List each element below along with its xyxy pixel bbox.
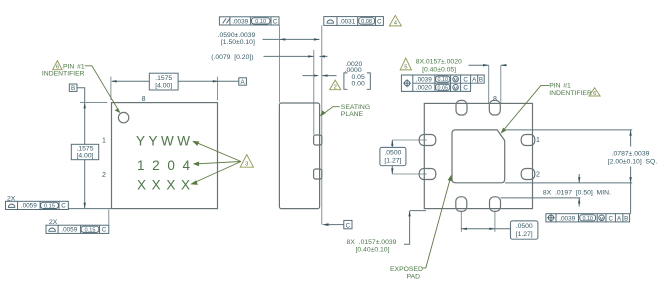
svg-text:6: 6	[593, 91, 596, 97]
svg-text:C: C	[346, 222, 351, 229]
svg-text:[2.00±0.10] SQ.: [2.00±0.10] SQ.	[608, 159, 658, 166]
svg-text:PAD: PAD	[407, 273, 421, 280]
svg-text:PIN #1: PIN #1	[549, 83, 571, 90]
parallelism frame // .0039 (0.10) C	[219, 17, 279, 25]
svg-text:B: B	[71, 85, 75, 92]
svg-text:[0.40±0.05]: [0.40±0.05]	[422, 66, 456, 73]
svg-text:0.00: 0.00	[352, 80, 365, 87]
svg-text:.0500: .0500	[384, 149, 401, 156]
note triangle 6 (bottom view)	[589, 88, 600, 96]
svg-text:0.10: 0.10	[255, 19, 266, 25]
dimension box .0500 [1.27] (bottom)	[510, 221, 538, 239]
lead width dimension leader and arrows	[469, 64, 507, 66]
lead offset dimension	[264, 55, 328, 57]
bottom edge pad 4	[456, 197, 467, 212]
profile frame .0031 (0.08) C	[324, 17, 384, 26]
note triangle 2	[330, 80, 341, 90]
bottom pad pitch extension lines	[461, 212, 495, 232]
svg-text:2: 2	[536, 171, 540, 178]
lead length min arrows	[578, 174, 580, 207]
exposed pad dimension line	[630, 130, 632, 214]
extension line from profile frame / datum C	[321, 25, 323, 224]
svg-text:.1575: .1575	[76, 146, 93, 153]
exposed pad leader	[422, 176, 451, 268]
marking leader arrows	[192, 142, 241, 184]
pin #1 leader (bottom view)	[502, 85, 550, 132]
svg-text:2: 2	[334, 84, 337, 90]
position frame (top)	[401, 75, 484, 91]
pin 1 identifier circle	[118, 112, 128, 122]
exposed pad bottom extension line	[505, 182, 632, 184]
svg-text:.0031: .0031	[339, 18, 355, 25]
dimension box .1575 [4.00] (left)	[71, 144, 98, 159]
svg-text:.0500: .0500	[516, 223, 533, 230]
svg-text:M: M	[600, 216, 604, 222]
svg-text:5: 5	[404, 64, 407, 70]
svg-text:INDENTIFIER: INDENTIFIER	[549, 90, 592, 97]
datum C leader (side view)	[322, 223, 329, 226]
extension line from parallelism frame	[278, 25, 280, 103]
left pad pitch dimension line	[391, 140, 393, 174]
svg-text:8X .0157±.0039: 8X .0157±.0039	[347, 239, 397, 246]
svg-text:.0059: .0059	[61, 227, 77, 234]
svg-text:8X .0197 [0.50] MIN.: 8X .0197 [0.50] MIN.	[543, 190, 611, 197]
height dimension .1575 vertical line	[84, 103, 86, 209]
connector frame2 to outline	[108, 210, 110, 226]
left edge pad 1	[419, 135, 436, 146]
right edge pad 5	[521, 169, 535, 180]
thickness dimension line	[263, 38, 320, 40]
svg-text:[1.50±0.10]: [1.50±0.10]	[221, 39, 255, 46]
side view package body	[279, 103, 319, 209]
pin #1 leader (top view)	[85, 66, 120, 112]
width dimension .1575 [4.00] extension lines	[111, 77, 218, 101]
svg-text:8: 8	[142, 96, 146, 103]
svg-text:[0.40±0.10]: [0.40±0.10]	[356, 247, 390, 254]
svg-text:M: M	[454, 77, 458, 83]
dimension box .0500 [1.27] (left)	[380, 147, 406, 165]
svg-text:C: C	[463, 85, 468, 92]
bottom pad pitch dimension line	[461, 228, 510, 230]
svg-text:8X.0157±.0020: 8X.0157±.0020	[416, 59, 462, 66]
bottom edge pad 3	[490, 197, 501, 212]
svg-text:0.15: 0.15	[85, 227, 96, 233]
svg-text:.0039: .0039	[416, 77, 432, 84]
svg-text:0.15: 0.15	[44, 203, 55, 209]
svg-text:B: B	[479, 77, 483, 84]
standoff dimension arrows	[303, 75, 337, 77]
svg-text:C: C	[273, 18, 278, 25]
svg-text:C: C	[463, 77, 468, 84]
lead inner edge extension line	[501, 197, 581, 199]
terminal length leader	[404, 211, 426, 245]
note triangle 4	[389, 15, 401, 26]
svg-text:YYWW: YYWW	[136, 134, 190, 149]
bottom view package outline	[424, 103, 532, 208]
seating plane extension line (left)	[68, 208, 111, 210]
datum B leader	[77, 88, 85, 103]
seating plane leader	[321, 107, 340, 116]
position frame (bottom)	[546, 214, 630, 222]
svg-text:[4.00]: [4.00]	[76, 153, 93, 160]
pin #1 identifier note triangle 6	[53, 61, 62, 70]
svg-text:.0039: .0039	[559, 215, 575, 222]
svg-text:C: C	[61, 203, 66, 210]
svg-text:.0020: .0020	[416, 85, 432, 92]
datum C box (side view)	[344, 220, 352, 228]
svg-text:SEATING: SEATING	[341, 104, 370, 111]
height extension line top	[80, 102, 107, 104]
exposed pad with pin1 chamfer	[452, 130, 505, 183]
svg-text:PLANE: PLANE	[341, 111, 364, 118]
svg-text:C: C	[608, 215, 613, 222]
exposed pad top extension line	[505, 129, 632, 131]
marking note triangle 3	[240, 155, 253, 168]
lead width extension lines	[489, 65, 501, 103]
svg-text:.0787±.0039: .0787±.0039	[612, 151, 650, 158]
dimension box .1575 [4.00]	[149, 73, 178, 90]
svg-text:0.08: 0.08	[361, 19, 372, 25]
svg-text:[4.00]: [4.00]	[155, 83, 172, 90]
svg-text:M: M	[454, 85, 458, 91]
top view package outline	[112, 103, 218, 209]
svg-text:.0590±.0039: .0590±.0039	[218, 32, 256, 39]
svg-text:B: B	[624, 215, 628, 222]
svg-text:0.05: 0.05	[438, 85, 449, 91]
svg-text:8: 8	[493, 96, 497, 103]
svg-text:3: 3	[245, 162, 248, 168]
svg-text:EXPOSED: EXPOSED	[390, 266, 423, 273]
svg-text:PIN #1: PIN #1	[63, 63, 85, 70]
side view terminal 1	[314, 135, 322, 145]
left pad pitch extension lines	[392, 140, 427, 174]
svg-text:.0059: .0059	[21, 203, 37, 210]
svg-text:.0039: .0039	[232, 18, 248, 25]
lead face extension line	[313, 50, 315, 135]
svg-text:[1.27]: [1.27]	[516, 231, 533, 238]
datum B box	[69, 84, 77, 91]
svg-text:0.10: 0.10	[438, 77, 449, 83]
top edge pad 8	[456, 100, 467, 115]
svg-text:1: 1	[536, 137, 540, 144]
svg-text:0.10: 0.10	[582, 216, 593, 222]
svg-text:(.0079 [0.20]): (.0079 [0.20])	[211, 54, 253, 61]
svg-text:1: 1	[102, 137, 106, 144]
svg-text:INDENTIFIER: INDENTIFIER	[42, 70, 85, 77]
top edge pad 7	[489, 100, 500, 115]
right edge pad 6	[521, 135, 535, 146]
svg-text:[1.27]: [1.27]	[384, 157, 401, 164]
svg-text:C: C	[102, 227, 107, 234]
left edge pad 2	[419, 169, 436, 180]
svg-text:2: 2	[102, 172, 106, 179]
svg-text:C: C	[377, 18, 382, 25]
width dimension line	[112, 80, 239, 82]
side view terminal 2	[314, 169, 322, 179]
svg-text:.1575: .1575	[155, 75, 172, 82]
note triangle 5	[400, 58, 411, 70]
datum A box	[239, 78, 247, 85]
